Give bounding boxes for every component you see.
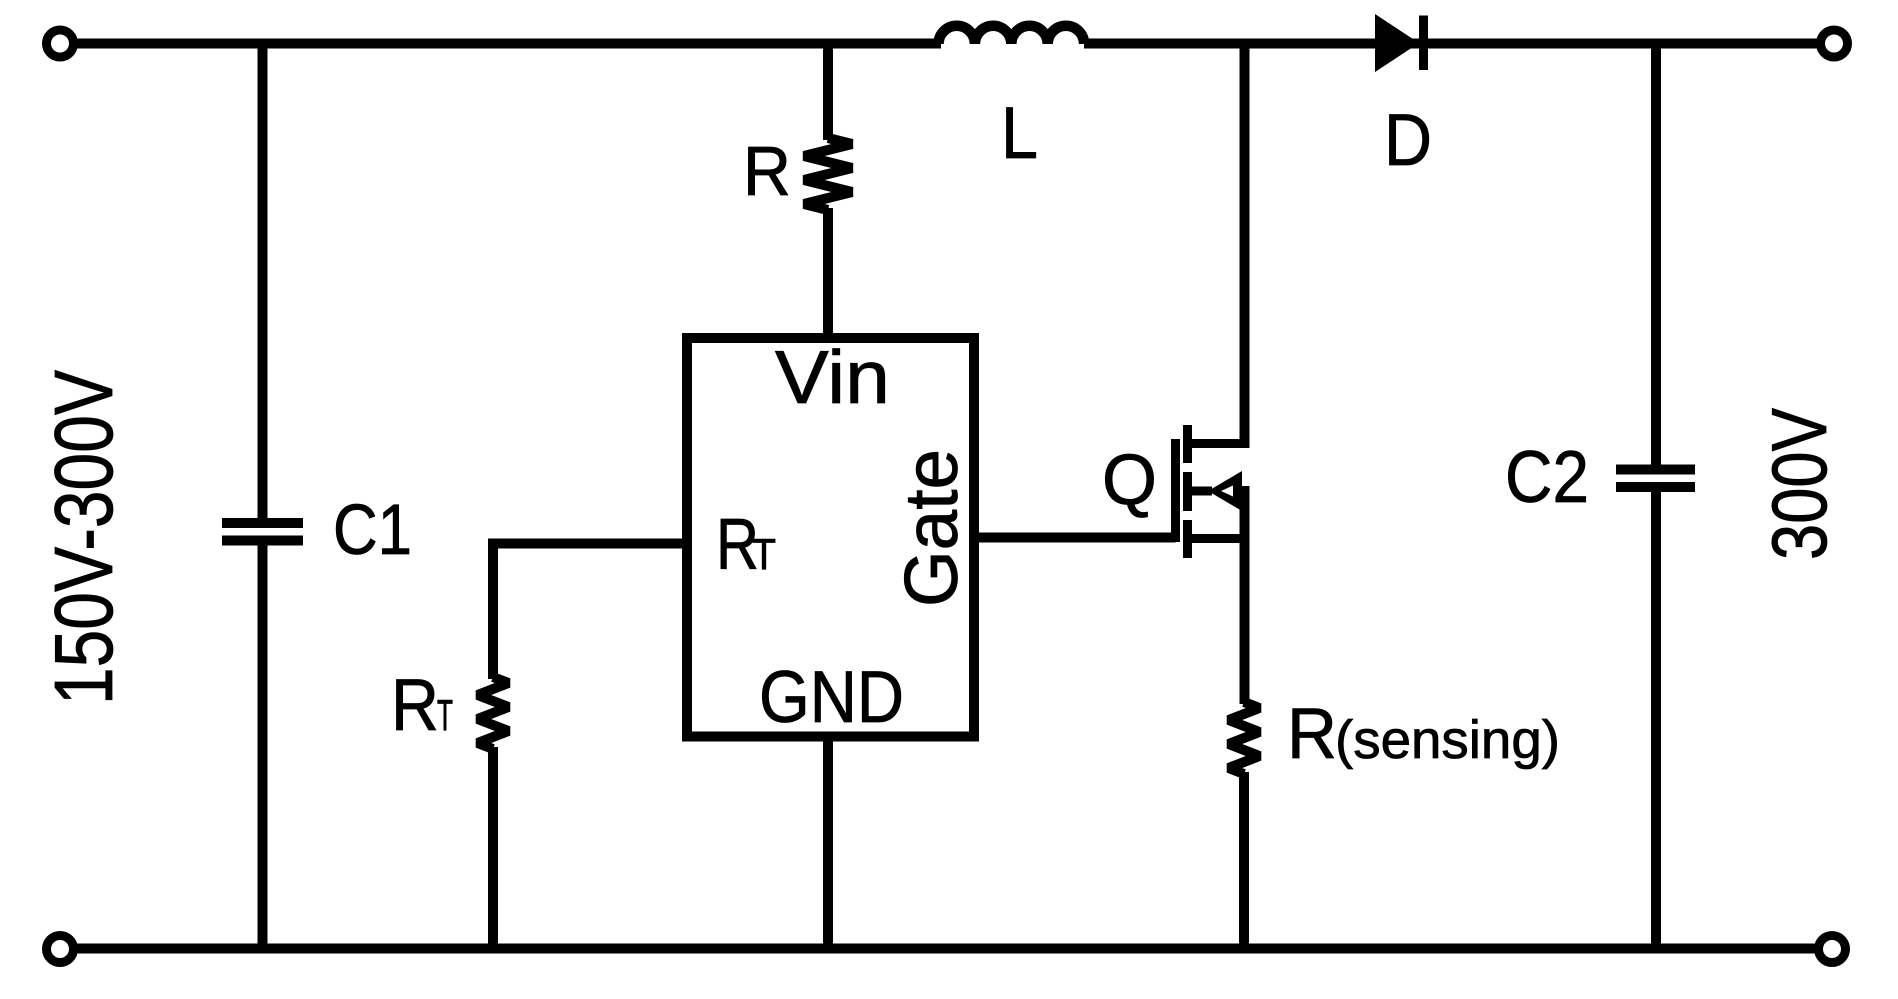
transistor Q gate plate <box>1171 439 1180 542</box>
svg-text:R: R <box>1287 695 1337 774</box>
wire resistor R to Vin pin of U1 <box>823 208 833 338</box>
wire Q drain horizontal stub <box>1184 439 1245 448</box>
svg-text:C1: C1 <box>333 491 412 570</box>
resistor R(sensing) zigzag <box>1229 702 1260 774</box>
svg-text:D: D <box>1384 100 1432 181</box>
resistor RT zigzag <box>478 677 509 749</box>
wire Q source vertical down to resistor R(sensing) <box>1240 486 1250 704</box>
svg-text:L: L <box>1001 93 1038 174</box>
capacitor C2 top plate <box>1616 465 1695 475</box>
svg-text:Q: Q <box>1102 441 1157 520</box>
wire top rail left segment <box>60 39 941 49</box>
wire Q source horizontal stub <box>1184 534 1245 543</box>
wire C2 branch upper (top rail to C2) <box>1651 44 1661 471</box>
svg-text:Vin: Vin <box>775 335 890 419</box>
diode D cathode bar <box>1419 16 1428 71</box>
svg-text:R: R <box>391 665 439 746</box>
svg-text:(sensing): (sensing) <box>1335 710 1560 770</box>
wire bottom rail <box>60 944 1832 954</box>
svg-text:R: R <box>743 132 791 210</box>
capacitor C1 bottom plate <box>222 536 303 546</box>
wire top rail right segment <box>1084 39 1833 49</box>
IC U1 box outline <box>687 338 974 737</box>
wire resistor RT to bottom rail <box>488 747 498 949</box>
wire left input branch upper (node to C1) <box>258 44 268 520</box>
wire Q body stem <box>1188 487 1212 496</box>
wire R branch top (top rail to resistor R) <box>823 44 833 141</box>
capacitor C1 top plate <box>222 518 303 528</box>
capacitor C2 bottom plate <box>1616 482 1695 492</box>
transistor Q channel bar middle (body) <box>1183 472 1192 511</box>
terminal top-right <box>1821 30 1848 57</box>
svg-text:C2: C2 <box>1505 437 1589 518</box>
svg-text:300V: 300V <box>1755 408 1843 560</box>
wire RT pin vertical segment down to resistor RT <box>488 539 498 680</box>
svg-text:GND: GND <box>759 657 904 738</box>
wire Q drain vertical to top rail <box>1240 44 1250 449</box>
wire C2 branch lower (C2 to bottom rail) <box>1651 487 1661 949</box>
transistor Q body-diode arrow <box>1208 471 1242 511</box>
terminal top-left <box>47 30 74 57</box>
terminal bottom-right <box>1819 936 1846 963</box>
transistor Q channel bar bottom (source) <box>1183 520 1192 558</box>
svg-text:T: T <box>752 530 776 579</box>
svg-text:T: T <box>437 691 453 740</box>
inductor L <box>939 26 1085 44</box>
svg-text:150V-300V: 150V-300V <box>37 370 130 705</box>
transistor Q channel bar top (drain) <box>1183 425 1192 463</box>
resistor R zigzag <box>804 138 852 210</box>
wire RT pin of U1 horizontal segment <box>493 539 687 549</box>
terminal bottom-left <box>47 936 74 963</box>
svg-text:Gate: Gate <box>889 449 973 607</box>
wire left input branch lower (C1 to bottom rail) <box>258 545 268 949</box>
wire resistor R(sensing) to bottom rail <box>1239 772 1249 949</box>
diode D anode triangle <box>1375 14 1419 72</box>
wire Gate pin of U1 to transistor Q gate <box>974 533 1176 543</box>
wire GND pin of U1 to bottom rail <box>823 736 833 949</box>
